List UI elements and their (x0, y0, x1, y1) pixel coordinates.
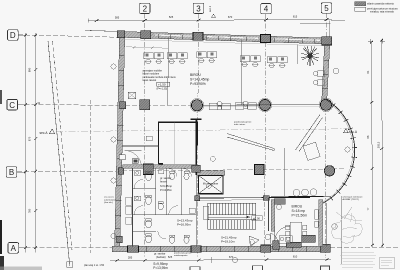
svg-text:760: 760 (28, 208, 32, 213)
corridor desk unit 2 (235, 101, 256, 109)
grid line A (19, 247, 113, 249)
svg-text:205,5: 205,5 (377, 141, 381, 148)
WC fixtures (146, 171, 190, 243)
corridor partition along grid C (202, 104, 321, 107)
grid bubble B (6, 167, 17, 178)
door closer box (132, 159, 138, 164)
svg-text:pardoseala mocheta trafic inte: pardoseala mocheta trafic intens (143, 76, 177, 79)
svg-text:670: 670 (228, 15, 233, 19)
svg-text:585: 585 (115, 15, 120, 19)
round column grid3/C (191, 100, 202, 111)
svg-text:P=93,90%: P=93,90% (190, 82, 206, 86)
open area wedge left (227, 134, 274, 151)
bottom dimension line (110, 259, 331, 262)
note text corridor (234, 121, 252, 127)
round column grid5/C (320, 99, 331, 110)
svg-text:±0,00: ±0,00 (253, 216, 260, 220)
desk cluster 4 (240, 56, 260, 67)
svg-text:S=18 mp: S=18 mp (292, 209, 306, 213)
plant SW corner of SE room (251, 237, 253, 239)
bottom exterior wall (112, 246, 330, 251)
svg-text:BIROU: BIROU (190, 73, 201, 77)
small wall marker vestibule (146, 136, 152, 141)
left exterior wall (slanted band) (115, 34, 125, 247)
svg-text:P=13,95m: P=13,95m (160, 188, 172, 192)
curved curtain wall (arc) (323, 100, 355, 204)
top dimension extension right (300, 23, 331, 25)
svg-text:sec.A: sec.A (40, 131, 49, 135)
survey crosses (368, 39, 385, 45)
svg-text:D: D (10, 31, 16, 40)
column on left wall at C (120, 102, 126, 109)
elevator shaft (198, 171, 225, 175)
mullion ticks bottom wall (146, 246, 306, 251)
wall tag circles left (111, 137, 116, 142)
corner column top-left (117, 31, 125, 38)
partition x=284 (283, 148, 285, 196)
svg-text:sec.1: sec.1 (208, 5, 212, 12)
grid bubble D (8, 30, 19, 41)
column on left wall lower (117, 236, 123, 243)
svg-text:3: 3 (196, 4, 201, 13)
right extension line (340, 196, 342, 264)
svg-text:(barbati): (barbati) (156, 255, 166, 259)
column bottom grid1a (128, 246, 139, 253)
meeting table SE room (290, 222, 302, 242)
dark column at elevator corner (192, 165, 200, 172)
faded notes bottom right (340, 252, 376, 267)
svg-text:metalica, vata minerala: metalica, vata minerala (370, 10, 394, 13)
svg-text:S=9,45mp: S=9,45mp (160, 184, 172, 188)
small table bottom (279, 236, 292, 244)
column grid2/B on toilet wall (143, 164, 153, 175)
tag circle right of wall top (333, 68, 339, 74)
grid line 2 (vertical dash-dot) (144, 14, 146, 258)
chairs along right wall (318, 71, 325, 77)
eave line top-left (85, 30, 119, 31)
top wall glazing lines (155, 35, 192, 36)
right dimension line 1 (372, 42, 373, 247)
svg-text:+1,50: +1,50 (158, 82, 166, 86)
svg-text:amenajare mobilier: amenajare mobilier (143, 70, 163, 73)
svg-text:femei: femei (160, 180, 167, 184)
biroul SE right wall (319, 200, 323, 247)
usa acces note (104, 197, 117, 205)
svg-text:lift persoane: lift persoane (203, 182, 219, 186)
level box +1,50 (157, 82, 170, 86)
svg-text:BIROU: BIROU (292, 205, 303, 209)
property boundary dashed (53, 41, 73, 250)
grid bubble 3 (193, 3, 203, 13)
casa scarii label (221, 236, 237, 244)
svg-text:670: 670 (28, 136, 32, 141)
toilet partitions (132, 168, 134, 246)
svg-text:S=143,45mp: S=143,45mp (190, 78, 209, 82)
svg-text:pereti gips-carton pe structur: pereti gips-carton pe structura (367, 7, 398, 10)
mullion ticks right wall upper (323, 60, 330, 88)
square shaft column mid (255, 165, 265, 175)
plant top right (301, 46, 319, 66)
column top grid5 (322, 37, 332, 45)
BIROU main label (190, 73, 209, 86)
svg-text:usa acces: usa acces (104, 197, 115, 199)
small level triangle mid plan (342, 130, 344, 132)
grid bubble 2 (140, 3, 150, 13)
office partition x=241 (240, 40, 243, 106)
triangle chair bottom (249, 236, 259, 246)
boundary end box (67, 262, 73, 268)
svg-text:pardoseala gresie: pardoseala gresie (234, 121, 252, 124)
svg-text:4: 4 (264, 5, 269, 14)
column bottom grid5 (320, 244, 330, 252)
top dimension line (88, 20, 332, 21)
svg-text:antiderapanta: antiderapanta (174, 254, 188, 257)
svg-text:615: 615 (293, 15, 298, 19)
svg-text:610: 610 (293, 255, 298, 259)
svg-text:amenajari exterioare: amenajari exterioare (343, 195, 364, 198)
legend top right (355, 2, 366, 6)
svg-text:C: C (9, 101, 15, 110)
svg-text:670: 670 (229, 255, 234, 259)
gr sanitar femei label (160, 176, 172, 192)
hol label (177, 219, 193, 227)
desk cluster 1 (144, 53, 164, 64)
svg-text:(P=+1,35): (P=+1,35) (157, 87, 168, 90)
round column C2 (square at grid2/C) (140, 100, 150, 110)
biroul SE top wall (271, 195, 330, 198)
section marker sec.A left (40, 131, 49, 135)
chairs + desk left of stairs (203, 206, 209, 219)
grid line 1 stub (89, 100, 91, 253)
small table mid-right (303, 142, 320, 160)
round column grid4/C (259, 99, 270, 110)
stamp box (380, 257, 395, 269)
central void walls (159, 122, 198, 164)
grid line B (17, 171, 122, 172)
svg-text:P=19,10m: P=19,10m (221, 240, 235, 244)
grid line 5 (325, 13, 327, 258)
corridor desk unit 1 (209, 101, 230, 109)
sinks (134, 170, 195, 213)
svg-text:ALINIAT (TROT.): ALINIAT (TROT.) (343, 198, 360, 201)
section marker sec.A right (349, 130, 358, 134)
toilet door arcs (134, 169, 192, 240)
tag circle SE (332, 224, 338, 230)
door arc to biroul (275, 226, 291, 242)
lockers along left wall (126, 197, 132, 205)
svg-text:2: 2 (143, 4, 148, 13)
column bottom grid4 (261, 245, 271, 252)
interior dimension line office (126, 47, 168, 48)
small box office left (128, 92, 136, 99)
column top grid2 (141, 31, 151, 39)
grid line 3 (197, 14, 199, 258)
svg-text:B: B (9, 168, 14, 177)
svg-text:pardoseala gresie: pardoseala gresie (174, 252, 192, 255)
svg-text:525: 525 (169, 15, 174, 19)
round column grid5/B (324, 166, 334, 176)
svg-text:zidarie caramida existenta: zidarie caramida existenta (367, 3, 394, 6)
svg-text:P=16,95m: P=16,95m (177, 223, 191, 227)
grid line C (18, 104, 123, 107)
stair hall top wall (196, 196, 310, 199)
amenajari exterioare note (343, 195, 364, 201)
gr sanitar barbati label (153, 252, 168, 270)
vestibule door arc (125, 151, 142, 168)
column bottom grid3 (191, 246, 201, 253)
section flag near grid 3 (208, 5, 212, 12)
vestibule wall y=146 (122, 145, 159, 147)
svg-text:tavan casetat: tavan casetat (143, 79, 157, 82)
top exterior wall (slanted band) (118, 31, 330, 44)
bar stools row (293, 189, 300, 196)
faded stamp sketch (332, 215, 362, 244)
bottom partial boxes (190, 266, 330, 270)
column top grid4 (261, 35, 271, 43)
right dimension line 2 (382, 40, 383, 247)
elevator hall wall (191, 119, 202, 175)
desk cluster 3 (197, 52, 217, 63)
mullion ticks left wall (115, 55, 124, 228)
svg-text:P=21,50m: P=21,50m (292, 214, 308, 218)
svg-text:P=13,95m: P=13,95m (153, 266, 168, 270)
grid bubble A (8, 243, 19, 254)
left dimension chain 1 (25, 33, 27, 253)
svg-text:gr. sanitar: gr. sanitar (160, 176, 172, 180)
svg-text:automatizata: automatizata (104, 198, 117, 201)
radiator SE room (315, 210, 319, 220)
scanner edge smudges (0, 90, 2, 104)
left dimension chain 2 (35, 33, 37, 253)
open area wedge right (296, 115, 323, 152)
dark cabinet SE room (302, 235, 316, 242)
desk SE room top (274, 199, 285, 205)
toilet block top wall (123, 165, 197, 169)
grid bubble 4 (261, 3, 271, 13)
svg-text:690: 690 (28, 67, 32, 72)
biroul SE door arc (271, 233, 279, 244)
svg-text:plan etaj 1 sc. 1:50: plan etaj 1 sc. 1:50 (84, 264, 105, 267)
window sill inner line top (125, 40, 331, 47)
stair hall right wall (268, 198, 270, 231)
grid bubble C (7, 99, 18, 110)
main staircase (208, 203, 256, 229)
svg-text:525: 525 (168, 255, 173, 259)
property boundary solid (48, 41, 69, 253)
svg-text:(fisa teh.): (fisa teh.) (104, 201, 113, 204)
section line A-A (56, 129, 352, 132)
svg-text:A: A (11, 244, 17, 253)
plant lower right wall (317, 59, 319, 61)
grid line D (horizontal dashed) (18, 35, 122, 38)
note text block office (143, 70, 177, 83)
desk cluster 5 (267, 57, 287, 68)
arc mullion ticks (330, 104, 357, 201)
column on left wall at B (118, 168, 124, 175)
level box ±0,00 (252, 216, 263, 221)
office partition x=168 (167, 38, 170, 106)
biroul SE label (292, 205, 308, 218)
door gap in left wall (119, 155, 125, 160)
bottom marker circle (232, 257, 237, 262)
svg-text:birouri modulare: birouri modulare (143, 73, 160, 76)
stair hall columns (195, 196, 200, 201)
svg-text:285: 285 (128, 255, 133, 259)
grid bubble 5 (321, 3, 331, 13)
grid line 4 (265, 14, 267, 258)
desk cluster 2 (167, 53, 187, 64)
column top grid3 (193, 32, 203, 40)
svg-text:trafic intens: trafic intens (234, 123, 246, 126)
note text mid (0, 0, 1, 1)
window mullion ticks top wall (158, 34, 314, 43)
right exterior wall upper (322, 44, 330, 100)
svg-text:5: 5 (324, 4, 329, 13)
dark block below door (273, 241, 280, 250)
tag circle on arc (345, 147, 350, 152)
